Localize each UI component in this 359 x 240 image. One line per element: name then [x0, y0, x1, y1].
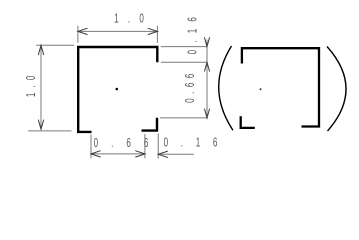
- svg-text:1 . 0: 1 . 0: [114, 12, 144, 26]
- svg-text:0.66: 0.66: [183, 74, 197, 103]
- svg-text:0 . 6 6: 0 . 6 6: [94, 136, 149, 150]
- svg-text:0.16: 0.16: [186, 17, 200, 54]
- svg-text:0 . 1 6: 0 . 1 6: [164, 136, 218, 150]
- svg-text:1.0: 1.0: [24, 76, 38, 98]
